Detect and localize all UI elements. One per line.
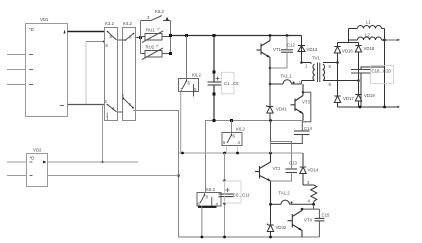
svg-text:TA1.2: TA1.2 (279, 191, 291, 196)
svg-text:K5.2: K5.2 (155, 9, 164, 14)
main top bus (171, 35, 302, 37)
output bottom line (338, 106, 399, 108)
relay contact K6.2a (179, 79, 199, 92)
svg-text:VD17: VD17 (343, 96, 354, 101)
svg-text:VT1: VT1 (273, 47, 281, 52)
wire VD1 plus output to K3.2 (68, 31, 105, 33)
junction C6 riser bottom (223, 202, 226, 205)
svg-text:*D: *D (30, 156, 35, 161)
svg-text:VD1: VD1 (40, 17, 49, 22)
svg-text:VD16: VD16 (342, 49, 353, 54)
junction TA1.2 left (269, 203, 272, 206)
svg-text:VD42: VD42 (276, 225, 287, 230)
C18...C20 bracket (371, 66, 394, 84)
wire RU left riser (140, 37, 142, 54)
svg-text:VT2: VT2 (273, 166, 281, 171)
main DC rail with capacitor bank (213, 36, 215, 83)
diode VD13 (298, 36, 305, 63)
junction VT4 collector (301, 208, 304, 211)
node tee to VD2 (102, 105, 104, 163)
current transformer TA1.1 (270, 80, 302, 84)
C12 tie to emitter (270, 67, 287, 69)
zener diode VD41 (267, 84, 273, 121)
bottom bus (179, 236, 320, 238)
capacitor C1...C5 (208, 82, 222, 85)
VT3 collector junction (302, 91, 304, 93)
junction rail top of cap (213, 71, 216, 74)
VS2 inner pin dashes (30, 162, 33, 176)
TA1.1 polarity dot (293, 82, 295, 84)
svg-text:K6.2: K6.2 (236, 127, 245, 132)
VS2 left stub 1 (7, 161, 27, 163)
TV1 feedback winding pins 3-4 (303, 185, 317, 204)
junction mid bus at 270.5 (269, 119, 272, 122)
wire K4.2 top output (136, 37, 141, 39)
varistor RU1 (141, 31, 171, 43)
wire K8.2 to bottom bus (201, 207, 203, 238)
svg-text:L1: L1 (366, 20, 371, 25)
junction mid bus at 214 (213, 119, 216, 122)
junction pin9 on leg (357, 79, 360, 82)
svg-text:C15: C15 (322, 213, 330, 218)
wire K4.2 bottom output (133, 111, 179, 153)
L1 output drop to cap bank (384, 29, 386, 108)
junction rail bottom of cap (213, 93, 216, 96)
junction L2 output (383, 39, 386, 42)
wire drop to K6.2a (186, 36, 188, 81)
relay contact column K3.2 (105, 28, 118, 121)
K3.2 bottom contact (107, 104, 117, 112)
svg-text:K4.2: K4.2 (123, 21, 132, 26)
junction bottom bus at 224.5 (223, 236, 226, 239)
current transformer TA1.2 (271, 200, 314, 204)
junction mid bus at 231.5 (230, 119, 233, 122)
switch K5.2 (141, 16, 171, 21)
inductor L2 (349, 37, 385, 40)
C6...C11 plus sign (226, 188, 230, 192)
bridge module VS2 (27, 154, 48, 187)
svg-text:RU1: RU1 (146, 28, 155, 33)
svg-text:K8.2: K8.2 (206, 187, 215, 192)
svg-text:VT4: VT4 (304, 218, 312, 223)
wire VD1 aux output to K3.2 pin5 (86, 41, 104, 43)
svg-text:VD2: VD2 (33, 148, 42, 153)
capacitor C6...C11 (219, 194, 234, 197)
K8.2 input drop (204, 193, 206, 196)
capacitor C18...C20 (351, 70, 371, 74)
junction bus2 at 270.5 (269, 152, 272, 155)
VD1 inner pin dashes (29, 55, 64, 106)
VT4 collector rail (302, 204, 319, 209)
svg-text:C13: C13 (289, 161, 297, 166)
svg-text:VD14: VD14 (308, 168, 319, 173)
transistor VT1 (257, 36, 271, 85)
wire VD1 aux vertical (85, 42, 87, 105)
snubber capacitor C12 (281, 50, 293, 52)
mid bus (negative rail upper section) (206, 121, 304, 193)
rectifier leg VD16 VD17 (334, 43, 340, 108)
relay contact column K4.2 (123, 28, 136, 121)
svg-text:L2: L2 (365, 33, 370, 38)
C6...C11 bracket (225, 181, 242, 203)
C15 wiring (318, 209, 320, 237)
junction bus2 at 224.5 (223, 152, 226, 155)
snubber capacitor C13 (286, 169, 298, 173)
junction TA1.2 right (312, 203, 315, 206)
node junction at 140.5,37.5 (139, 36, 142, 39)
junction bottom bus at 201.9 (201, 236, 204, 239)
TV1 pin2 drop (301, 81, 303, 85)
transistor VT4 (288, 209, 303, 237)
TV1 core (318, 63, 320, 83)
junction VT1 emitter node (269, 67, 272, 70)
VS2 left stub 2 (7, 175, 27, 177)
VT3 emitter arrow (300, 111, 304, 114)
output plus arrow tick (397, 39, 400, 41)
K8.2 thick bottom bar (198, 206, 217, 208)
svg-text:C18...C20: C18...C20 (372, 69, 392, 74)
bridge module VD1 (26, 24, 68, 117)
junction TA1.1 left (269, 83, 272, 86)
svg-text:C14: C14 (304, 126, 312, 131)
svg-text:VT3: VT3 (302, 100, 310, 105)
junction bus2 at 182.5 (181, 152, 184, 155)
junction at 214 (213, 34, 216, 37)
svg-text:TV1: TV1 (312, 56, 320, 61)
junction at 287 (286, 34, 289, 37)
relay contact K8.2 (197, 193, 221, 207)
C1...C5 bracket (221, 72, 234, 94)
junction tee on VD2 lead (101, 161, 103, 163)
transistor VT3 (291, 84, 304, 121)
VD1 left stub pin 2 (7, 69, 26, 71)
relay contact K6.2b (222, 133, 242, 146)
inductor L1 (349, 26, 385, 29)
junction C6 riser top (223, 179, 226, 182)
TA1.2 polarity dot (291, 202, 293, 204)
wire VS2 top output (48, 161, 139, 163)
svg-text:C12: C12 (287, 43, 295, 48)
output plus line (385, 39, 399, 41)
wire RU right riser (170, 21, 172, 54)
capacitor bank C6...C11 riser (224, 153, 226, 194)
K8.2 contact blade (200, 194, 212, 206)
svg-text:K6.2: K6.2 (192, 73, 201, 78)
TV1 secondary winding (323, 63, 359, 81)
junction at 186.5 (185, 34, 188, 37)
wire VD1 minus output to K3.2 bottom (68, 104, 105, 106)
bus2 horizontal (179, 152, 303, 154)
K6.2b pin stubs to bus2 (226, 146, 228, 154)
svg-text:VD41: VD41 (276, 107, 287, 112)
K5.2 arrow contact (166, 17, 169, 20)
svg-text:VD18: VD18 (364, 46, 375, 51)
junction pin5 on leg (336, 61, 339, 64)
wire K6.2a output down to bus2 (180, 92, 182, 154)
wire drop to K6.2b (231, 121, 233, 135)
C1...C5 plus sign (216, 77, 220, 81)
junction at 270 (269, 34, 272, 37)
capacitor C15 (315, 218, 325, 221)
left feeder vertical (178, 111, 180, 238)
VD1 left stub pin 3 (7, 84, 26, 86)
diode VD14 (300, 153, 306, 185)
junction C18 bottom (359, 106, 362, 109)
wire VS2 bottom output (48, 175, 179, 177)
K3.2 top contact (107, 31, 117, 40)
rectifier leg VD18 VD19 (355, 43, 361, 108)
VT1 emitter arrow (267, 55, 271, 58)
wire riser to K5.2 (140, 21, 142, 38)
C18 top jog (361, 67, 385, 70)
C13 hat wiring (271, 142, 292, 182)
C14 loop wiring (271, 92, 311, 143)
snubber capacitor C14 (294, 131, 310, 135)
pin dot aux lead at K3.2 (103, 41, 105, 43)
VS2 output arrow (43, 161, 47, 164)
C18 riser to bottom (360, 73, 362, 107)
svg-text:K3.2: K3.2 (105, 21, 114, 26)
junction feeder VD2 lead (177, 174, 180, 177)
svg-text:C1...C5: C1...C5 (224, 81, 239, 86)
VD1 plus output arrow (64, 30, 66, 34)
K6.2a contact blade (182, 80, 194, 96)
svg-text:VD13: VD13 (307, 47, 318, 52)
zener diode VD42 (267, 204, 273, 237)
choke left riser (348, 29, 350, 43)
C12 riser (286, 36, 288, 50)
junction RU2 right (169, 52, 172, 55)
VD1 left stub pin 1 (7, 54, 26, 56)
K3.2 pin1 inner stub (106, 113, 108, 121)
svg-text:TA1.1: TA1.1 (281, 74, 293, 79)
junction RU1 right (169, 34, 172, 37)
svg-text:*D: *D (29, 27, 34, 32)
K4.2 top contact (118, 33, 134, 41)
K6.2b contact blade (227, 134, 232, 143)
K4.2 bottom contact (118, 98, 134, 112)
VT2 emitter arrow (267, 178, 271, 181)
VT4 emitter arrow (299, 228, 303, 231)
varistor RU2 (141, 48, 171, 60)
TV1 pin1 junction (300, 61, 303, 64)
output minus arrow tick (397, 106, 400, 108)
TV1 primary winding (302, 63, 315, 81)
transistor VT2 (255, 153, 271, 204)
junction L drop bottom (383, 106, 386, 109)
svg-text:RU2: RU2 (146, 45, 155, 50)
junction bottom bus at 270.5 (269, 236, 272, 239)
rectifier top link (338, 42, 359, 44)
svg-text:VD19: VD19 (364, 93, 375, 98)
junction bus2 at 237.5 (236, 152, 239, 155)
svg-text:C6...C11: C6...C11 (233, 193, 250, 198)
